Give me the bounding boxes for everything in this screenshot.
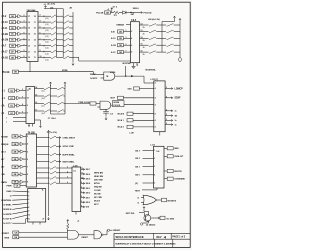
output row SDXF <box>165 97 172 99</box>
svg-text:8: 8 <box>81 187 82 189</box>
svg-text:8: 8 <box>40 44 41 46</box>
resistor element <box>44 102 50 104</box>
svg-text:(C4): (C4) <box>45 59 49 61</box>
wire <box>38 21 51 23</box>
svg-text:t2: t2 <box>137 196 139 199</box>
output row COMMAND <box>164 178 167 180</box>
svg-text:CB 2: CB 2 <box>135 158 141 160</box>
output row 1B <box>165 115 172 117</box>
wire POWER GOOD <box>65 103 90 105</box>
svg-text:3: 3 <box>154 166 155 168</box>
svg-text:SRQ BM: SRQ BM <box>94 186 102 188</box>
svg-text:MC BM: MC BM <box>94 193 101 195</box>
svg-text:4: 4 <box>155 126 156 129</box>
pullup row 3 <box>140 44 149 46</box>
pullup row F1 <box>35 95 45 97</box>
resistor element <box>44 95 50 97</box>
svg-text:MCMB: MCMB <box>114 102 120 104</box>
svg-text:LS8 (4x 2.2k): LS8 (4x 2.2k) <box>148 18 160 21</box>
wire <box>38 51 51 53</box>
+5 arrow <box>148 212 150 215</box>
xor gate U10 <box>143 195 157 205</box>
svg-text:18: 18 <box>34 16 36 18</box>
IC U5 bottom pins <box>28 124 30 127</box>
svg-text:11: 11 <box>81 173 83 175</box>
svg-text:PGOOD: PGOOD <box>114 105 121 107</box>
bus RN9 <box>59 138 61 184</box>
svg-text:BUFF ENBL: BUFF ENBL <box>63 154 76 156</box>
pullup row 1 <box>140 31 149 33</box>
svg-text:A B: A B <box>111 30 115 33</box>
wire <box>38 57 51 59</box>
svg-text:MODE B: MODE B <box>168 200 177 202</box>
resistor element <box>44 87 50 89</box>
svg-text:5: 5 <box>81 201 82 203</box>
svg-text:12: 12 <box>141 24 143 26</box>
svg-text:(C4): (C4) <box>45 30 49 32</box>
output label <box>151 217 160 219</box>
resistor element <box>57 87 63 89</box>
svg-text:5: 5 <box>28 195 29 197</box>
svg-text:7: 7 <box>40 38 41 40</box>
svg-text:DB 5: DB 5 <box>86 179 90 181</box>
svg-text:6: 6 <box>131 45 132 47</box>
svg-text:5: 5 <box>67 177 68 179</box>
gate U12 <box>94 231 102 239</box>
svg-text:9: 9 <box>28 211 29 213</box>
svg-text:BUERKHALDT & BOB WULF SELECT L: BUERKHALDT & BOB WULF SELECT LOGIC <box>116 242 159 245</box>
resistor element <box>149 24 156 26</box>
svg-text:LOMCP: LOMCP <box>175 88 184 90</box>
svg-text:4: 4 <box>155 97 156 100</box>
resistor element <box>149 51 156 53</box>
node junction <box>130 12 131 13</box>
output row DB 4 <box>81 182 85 184</box>
svg-text:9: 9 <box>40 50 41 52</box>
svg-text:4: 4 <box>155 82 156 85</box>
svg-text:5: 5 <box>166 119 167 121</box>
resistor element <box>50 172 56 174</box>
svg-text:3: 3 <box>40 15 41 17</box>
svg-text:( A 2B: ( A 2B <box>2 33 9 36</box>
svg-text:TEST: TEST <box>135 191 141 193</box>
svg-text:PRSET: PRSET <box>2 233 10 235</box>
svg-text:7: 7 <box>28 203 29 205</box>
svg-text:2: 2 <box>22 89 23 91</box>
svg-text:17: 17 <box>28 16 30 18</box>
svg-text:L8: L8 <box>74 171 76 173</box>
wire <box>38 15 51 17</box>
svg-text:5: 5 <box>126 44 127 46</box>
svg-text:12: 12 <box>81 168 83 170</box>
output row DB 7 <box>81 168 85 170</box>
svg-text:5: 5 <box>166 109 167 111</box>
svg-text:8: 8 <box>27 174 28 176</box>
svg-text:GCMCF: GCMCF <box>90 78 98 80</box>
output row 1x <box>165 110 172 112</box>
svg-text:J B: J B <box>1 174 5 176</box>
svg-text:MC CMD: MC CMD <box>94 197 102 199</box>
MODE B label <box>157 199 162 201</box>
svg-text:DB 2: DB 2 <box>86 193 90 195</box>
svg-text:(C4): (C4) <box>45 18 49 20</box>
svg-text:MCNTML: MCNTML <box>123 63 132 65</box>
svg-text:DBMAN: DBMAN <box>117 23 125 26</box>
pullup row 4 <box>140 51 149 53</box>
resistor pack RN2 element <box>63 39 69 41</box>
RESET label <box>107 229 109 231</box>
svg-text:CO BM: CO BM <box>94 190 101 192</box>
svg-text:MCMD: MCMD <box>1 136 8 138</box>
svg-text:MTML: MTML <box>110 72 116 74</box>
title block <box>114 232 190 234</box>
resistor element <box>50 160 56 162</box>
resistor element <box>167 30 174 32</box>
svg-text:(4x): (4x) <box>42 105 45 107</box>
svg-text:(C4): (C4) <box>45 48 49 50</box>
svg-text:14: 14 <box>35 86 37 89</box>
svg-text:5: 5 <box>22 112 23 114</box>
svg-text:CB 0: CB 0 <box>135 175 141 177</box>
svg-text:12: 12 <box>34 51 36 53</box>
svg-text:MONTEML: MONTEML <box>1 200 12 202</box>
IC U1 pin 1 wire <box>29 62 31 72</box>
bus row 2 <box>37 177 50 179</box>
output row DB 1 <box>81 197 85 199</box>
svg-text:12: 12 <box>28 45 30 47</box>
svg-text:6: 6 <box>81 196 82 198</box>
output row 1x <box>165 124 172 126</box>
svg-text:A 1B: A 1B <box>111 44 116 47</box>
resistor pack RN1 element <box>51 15 56 17</box>
svg-text:16: 16 <box>28 22 30 24</box>
resistor element <box>50 145 56 147</box>
resistor element <box>149 44 156 46</box>
U8 bottom pins <box>32 222 34 225</box>
svg-text:MCP: MCP <box>111 98 116 100</box>
svg-text:(2): (2) <box>135 183 138 185</box>
svg-text:7: 7 <box>27 166 28 168</box>
svg-text:2: 2 <box>131 31 132 33</box>
svg-text:13: 13 <box>34 45 36 47</box>
resistor pack RN1 element <box>51 56 56 58</box>
svg-text:( A 1M: ( A 1M <box>2 39 9 42</box>
output row SMD <box>164 147 167 149</box>
svg-text:PULSE: PULSE <box>96 13 104 15</box>
svg-text:DATA: DATA <box>1 181 7 184</box>
resistor pack RN1 element <box>51 51 56 53</box>
resistor element <box>57 95 63 97</box>
svg-text:+5: +5 <box>107 9 109 11</box>
resistor pack RN1 element <box>51 21 56 23</box>
resistor element <box>57 102 63 104</box>
resistor element <box>57 110 63 112</box>
pullup row F3 <box>35 110 45 112</box>
svg-text:1: 1 <box>154 150 155 152</box>
svg-text:16: 16 <box>141 51 143 53</box>
svg-text:CB 3: CB 3 <box>135 150 141 152</box>
svg-text:WULF-I/O INTERFACE: WULF-I/O INTERFACE <box>116 235 144 239</box>
svg-text:11: 11 <box>28 218 30 220</box>
svg-text:2: 2 <box>24 15 25 17</box>
output row CHNL MT <box>164 155 167 157</box>
svg-text:5: 5 <box>40 27 41 29</box>
svg-text:14: 14 <box>34 39 36 42</box>
svg-text:PAGE 1 of 2: PAGE 1 of 2 <box>172 236 185 239</box>
svg-text:DEVICE: DEVICE <box>174 171 182 173</box>
resistor element <box>50 182 56 184</box>
resistor pack RN2 element <box>63 56 69 58</box>
svg-text:DB 6: DB 6 <box>86 174 90 176</box>
svg-text:15: 15 <box>34 34 36 36</box>
svg-text:10: 10 <box>28 215 30 217</box>
svg-text:MRQ/N: MRQ/N <box>1 144 9 146</box>
bus to lower <box>72 12 74 62</box>
net label MDR <box>141 12 143 14</box>
svg-text:5: 5 <box>166 96 167 98</box>
svg-text:SYNC CMP: SYNC CMP <box>63 146 75 148</box>
svg-text:MTML: MTML <box>62 70 69 72</box>
svg-text:t3: t3 <box>137 201 139 204</box>
svg-text:12: 12 <box>28 125 30 127</box>
svg-text:CHNL MT: CHNL MT <box>174 156 184 158</box>
resistor pack RN1 element <box>51 39 56 41</box>
svg-text:17: 17 <box>34 22 36 24</box>
svg-text:15: 15 <box>141 44 143 46</box>
U4 bottom pin <box>159 132 161 136</box>
svg-text:2: 2 <box>154 158 155 160</box>
svg-text:4: 4 <box>24 26 25 29</box>
svg-text:NC MX#: NC MX# <box>167 218 175 220</box>
svg-text:RESET: RESET <box>113 230 121 232</box>
bus row 1 <box>37 172 50 174</box>
svg-text:+5: +5 <box>44 4 46 6</box>
output row DB 3 <box>81 187 85 189</box>
+5 arrows <box>49 82 51 85</box>
svg-text:1: 1 <box>126 30 127 32</box>
svg-text:4: 4 <box>155 87 156 90</box>
resistor pack RN1 element <box>51 27 56 29</box>
arrow terminator <box>39 125 41 128</box>
bottom rail <box>51 113 66 115</box>
resistor element <box>50 136 56 138</box>
page border <box>3 2 191 247</box>
IC U8 <box>28 189 46 223</box>
svg-text:10: 10 <box>81 177 83 179</box>
svg-text:( A: ( A <box>2 104 5 107</box>
ground arrow <box>105 117 107 120</box>
diode CR1 <box>123 11 127 14</box>
output row 1x <box>165 119 172 121</box>
resistor pack RN2 element <box>63 27 69 29</box>
wire <box>38 39 51 41</box>
svg-text:START & ADDRESS: START & ADDRESS <box>157 242 177 245</box>
output row BUFF ENBL <box>37 154 50 156</box>
ground <box>132 66 136 68</box>
svg-text:16: 16 <box>35 102 37 104</box>
bus RN6 <box>50 85 52 114</box>
svg-text:(C4): (C4) <box>45 24 49 26</box>
svg-text:6: 6 <box>27 159 28 161</box>
arrow terminator <box>47 217 49 220</box>
svg-text:4: 4 <box>22 103 23 106</box>
wire <box>38 33 51 35</box>
+5 arrow bus5 <box>179 18 181 21</box>
svg-text:(4x): (4x) <box>42 90 45 92</box>
resistor element <box>167 51 174 53</box>
svg-text:7x8: 7x8 <box>156 151 159 153</box>
svg-text:(4x): (4x) <box>42 98 45 100</box>
svg-text:15: 15 <box>28 28 30 30</box>
pullup row F0 <box>35 88 45 90</box>
svg-text:11: 11 <box>137 65 139 67</box>
svg-text:DB 0: DB 0 <box>86 202 90 204</box>
svg-text:DAV TBM: DAV TBM <box>94 178 103 181</box>
svg-text:8: 8 <box>24 50 25 52</box>
resistor element <box>44 110 50 112</box>
svg-text:DB 3: DB 3 <box>86 188 90 190</box>
svg-text:MSE: MSE <box>5 238 10 240</box>
svg-text:.1uf: .1uf <box>110 114 114 116</box>
output row CHNL MSUT <box>37 137 50 139</box>
svg-text:PWR: PWR <box>7 186 12 188</box>
emitter ground <box>148 222 150 224</box>
svg-text:3: 3 <box>67 167 68 169</box>
resistor R2 pullup <box>67 222 69 231</box>
svg-text:CHNL MSUT: CHNL MSUT <box>63 137 76 139</box>
svg-text:11: 11 <box>34 57 36 59</box>
svg-text:SMD: SMD <box>174 148 179 150</box>
svg-text:4: 4 <box>27 143 28 146</box>
long wire from U1 row to U2 pin <box>73 56 79 58</box>
svg-text:PGOOD: PGOOD <box>144 13 152 15</box>
arrow terminator <box>72 62 74 65</box>
resistor pack RN2 element <box>63 33 69 35</box>
resistor pack RN1 element <box>51 33 56 35</box>
svg-text:( A 17: ( A 17 <box>2 51 9 54</box>
resistor element <box>50 153 56 155</box>
svg-text:(C4): (C4) <box>45 36 49 38</box>
svg-text:( A 13: ( A 13 <box>2 21 9 24</box>
svg-text:9: 9 <box>81 182 82 184</box>
svg-text:14: 14 <box>28 33 30 36</box>
svg-text:1N914: 1N914 <box>133 7 140 10</box>
svg-text:5: 5 <box>166 114 167 116</box>
svg-text:EOI: EOI <box>86 207 90 209</box>
capacitor C2 .1uf <box>105 109 107 111</box>
svg-text:13: 13 <box>141 30 143 32</box>
svg-text:6: 6 <box>40 32 41 34</box>
svg-text:RESET: RESET <box>82 237 89 239</box>
U7 bottom pin <box>75 212 77 215</box>
svg-text:5: 5 <box>27 151 28 153</box>
pullup row 0 <box>140 24 149 26</box>
svg-text:16: 16 <box>34 28 36 30</box>
shield diamond <box>178 57 182 62</box>
svg-text:4: 4 <box>40 20 41 23</box>
svg-text:17: 17 <box>35 110 37 112</box>
svg-text:MONTEML: MONTEML <box>146 70 157 72</box>
svg-text:SDXF: SDXF <box>175 98 182 100</box>
svg-text:7: 7 <box>126 51 127 53</box>
resistor element <box>50 167 56 169</box>
svg-text:MODE B: MODE B <box>3 209 12 211</box>
svg-text:9: 9 <box>24 56 25 58</box>
svg-text:MOT DXL: MOT DXL <box>126 213 136 215</box>
output row DEVICE <box>164 170 167 172</box>
svg-text:TP1: TP1 <box>114 15 118 17</box>
svg-text:(C4): (C4) <box>45 42 49 44</box>
resistor pack RN2 element <box>63 51 69 53</box>
svg-text:4: 4 <box>155 119 156 122</box>
output row DB 5 <box>81 178 85 180</box>
pullup row 2 <box>140 37 149 39</box>
resistor element <box>167 44 174 46</box>
svg-text:(4x 4.7k): (4x 4.7k) <box>48 2 56 5</box>
svg-text:5: 5 <box>166 87 167 89</box>
svg-text:(C4): (C4) <box>45 54 49 56</box>
IC U2 bottom pins <box>133 63 135 66</box>
svg-text:SMCF: SMCF <box>90 74 96 76</box>
bus RN1 <box>55 9 57 58</box>
svg-text:15: 15 <box>35 95 37 97</box>
resistor pack RN2 element <box>63 15 69 17</box>
svg-text:14: 14 <box>141 36 143 39</box>
resistor element <box>167 37 174 39</box>
svg-text:% OUT 7: % OUT 7 <box>3 223 12 225</box>
svg-text:COMMAND: COMMAND <box>174 178 185 181</box>
output row DB 6 <box>81 173 85 175</box>
svg-text:MCA B: MCA B <box>118 113 125 116</box>
svg-text:MCA 2: MCA 2 <box>118 126 125 129</box>
svg-text:Q1 2N2222: Q1 2N2222 <box>146 225 155 227</box>
svg-text:4: 4 <box>155 112 156 115</box>
arrow marker <box>131 75 133 77</box>
svg-text:10: 10 <box>40 56 42 58</box>
svg-text:5: 5 <box>154 183 155 185</box>
svg-text:6: 6 <box>24 38 25 40</box>
svg-text:REV: REV <box>157 236 162 239</box>
svg-text:3: 3 <box>22 97 23 99</box>
svg-text:L1M: L1M <box>130 133 134 135</box>
svg-text:5: 5 <box>24 33 25 35</box>
bus RN8 <box>48 135 50 217</box>
svg-text:8: 8 <box>131 52 132 54</box>
svg-text:CB 1: CB 1 <box>135 166 141 168</box>
bus RN7 <box>64 85 66 114</box>
svg-text:% INSTR: % INSTR <box>3 214 12 216</box>
svg-text:3: 3 <box>126 37 127 39</box>
pullup row F2 <box>35 103 45 105</box>
svg-text:3: 3 <box>27 136 28 138</box>
resistor element <box>167 24 174 26</box>
+5 arrow <box>173 16 175 19</box>
svg-text:5: 5 <box>166 123 167 125</box>
bus row 0 <box>37 167 50 169</box>
svg-text:6: 6 <box>28 199 29 201</box>
PGOOD box label <box>111 104 113 106</box>
resistor element <box>149 30 156 32</box>
svg-text:( A 7: ( A 7 <box>2 45 7 48</box>
svg-text:10: 10 <box>27 98 29 100</box>
svg-text:DB 7: DB 7 <box>86 169 90 171</box>
output row SYNC CMP <box>37 145 50 147</box>
svg-text:8: 8 <box>28 207 29 209</box>
svg-text:DB 1: DB 1 <box>86 197 90 199</box>
svg-text:DIAG: DIAG <box>6 190 11 193</box>
+5 pullup arrow <box>111 8 113 11</box>
output row WAIT ENBL <box>37 161 50 163</box>
